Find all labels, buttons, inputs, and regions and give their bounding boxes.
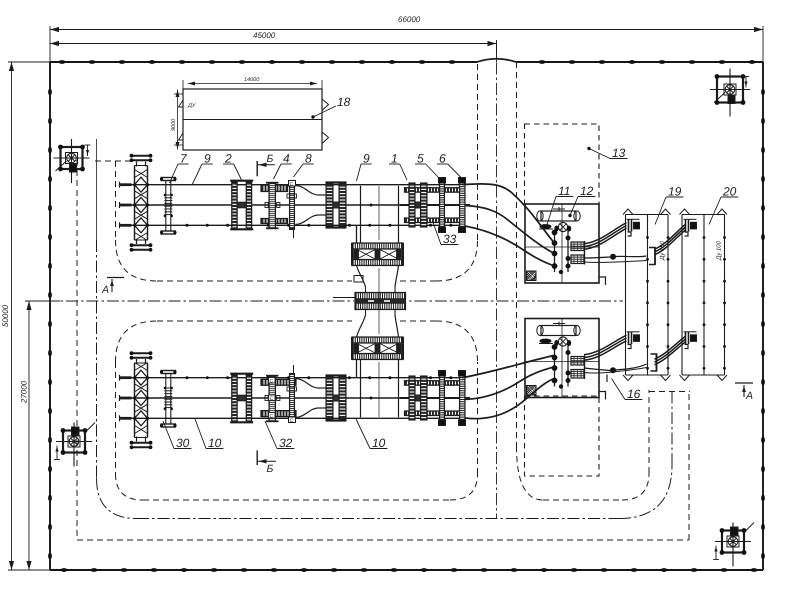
svg-text:27000: 27000 <box>20 380 29 404</box>
svg-text:18: 18 <box>337 95 351 109</box>
svg-text:19: 19 <box>668 185 682 199</box>
svg-text:50000: 50000 <box>1 304 10 327</box>
svg-text:9000: 9000 <box>171 118 177 131</box>
svg-text:66000: 66000 <box>398 15 421 24</box>
svg-text:Б: Б <box>267 463 274 475</box>
svg-text:5: 5 <box>417 152 424 166</box>
svg-text:Б: Б <box>267 153 274 165</box>
svg-text:16: 16 <box>627 387 641 401</box>
svg-text:6: 6 <box>439 152 446 166</box>
svg-text:А: А <box>101 284 109 296</box>
svg-text:11: 11 <box>558 184 570 198</box>
svg-text:4: 4 <box>283 152 290 166</box>
svg-text:20: 20 <box>722 185 737 199</box>
svg-text:32: 32 <box>279 436 293 450</box>
svg-text:С: С <box>290 182 294 188</box>
svg-text:ДУ: ДУ <box>187 103 196 109</box>
svg-text:45000: 45000 <box>253 31 276 40</box>
svg-text:С: С <box>270 396 274 402</box>
svg-text:12: 12 <box>580 184 594 198</box>
svg-text:9: 9 <box>363 152 370 166</box>
svg-text:С: С <box>270 413 274 419</box>
svg-text:Ду 100: Ду 100 <box>716 240 723 261</box>
svg-text:С: С <box>270 378 274 384</box>
svg-text:8: 8 <box>305 152 312 166</box>
svg-text:А: А <box>745 390 753 402</box>
svg-text:С: С <box>290 418 294 424</box>
svg-text:14000: 14000 <box>244 77 260 83</box>
svg-text:10: 10 <box>372 436 386 450</box>
svg-text:13: 13 <box>612 146 626 160</box>
svg-text:1: 1 <box>391 152 398 166</box>
svg-text:2: 2 <box>224 152 232 166</box>
svg-text:9: 9 <box>204 152 211 166</box>
svg-text:30: 30 <box>176 436 190 450</box>
svg-text:10: 10 <box>208 436 222 450</box>
svg-text:33: 33 <box>443 232 457 246</box>
